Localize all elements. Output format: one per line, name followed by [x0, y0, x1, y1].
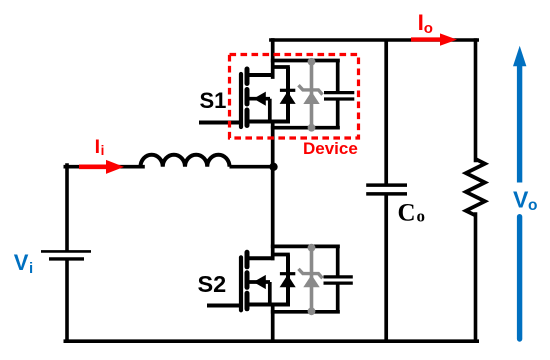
svg-text:S1: S1 — [200, 88, 227, 113]
mosfet S1 source lead — [247, 120, 290, 124]
zener diode S1 (gray) — [310, 61, 314, 128]
mosfet S2 gate lead — [209, 304, 240, 308]
battery Vi plate long — [41, 250, 91, 253]
capacitor S2 snubber — [336, 246, 340, 277]
svg-text:i: i — [101, 143, 105, 158]
wire left vertical upper — [65, 165, 69, 250]
mosfet S1 body arrow — [247, 97, 271, 101]
wire inductor to junction — [230, 165, 275, 169]
device dashed box — [230, 55, 359, 139]
diode S1 body diode — [286, 67, 290, 122]
wire right vertical upper — [474, 40, 478, 161]
node gray dot S2 zener top — [308, 244, 316, 252]
svg-text:o: o — [424, 20, 433, 37]
arrow Vo (blue) — [517, 65, 522, 183]
S2 device internal top rail — [273, 245, 338, 249]
mosfet S1 gate bar — [239, 74, 243, 127]
mosfet S2 body arrow — [247, 280, 271, 284]
S1 device internal top rail — [273, 59, 338, 63]
zener diode S2 (gray) — [310, 246, 314, 311]
mosfet S1 gate lead — [201, 121, 240, 125]
capacitor Co branch wire upper — [384, 40, 388, 185]
capacitor Co branch wire lower — [384, 194, 388, 341]
mosfet S1 channel segments — [245, 69, 250, 84]
node junction dot — [269, 163, 277, 171]
capacitor Co — [366, 183, 407, 187]
mosfet S1 drain lead — [247, 73, 275, 77]
svg-text:o: o — [417, 207, 426, 226]
wire right vertical lower — [474, 214, 478, 341]
wire top rail — [271, 38, 477, 42]
svg-text:o: o — [528, 197, 537, 214]
capacitor S1 snubber — [336, 61, 340, 93]
svg-text:S2: S2 — [198, 271, 227, 297]
wire bottom rail — [65, 339, 477, 343]
S1 device internal bottom rail — [273, 126, 338, 130]
wire middle vertical S1 source to junction — [271, 122, 275, 167]
mosfet S2 drain lead — [247, 256, 275, 260]
S2 diode top stub — [273, 255, 288, 260]
svg-text:i: i — [29, 260, 33, 277]
inductor L — [141, 155, 230, 167]
battery Vi plate short — [49, 257, 84, 260]
mosfet S2 channel segments — [245, 252, 250, 266]
svg-text:I: I — [95, 136, 100, 158]
S2 device internal bottom rail — [273, 310, 338, 314]
svg-text:C: C — [398, 200, 416, 227]
wire S2 source to bottom rail — [271, 305, 275, 342]
wire top-left horizontal — [65, 165, 143, 169]
node gray dot S1 zener bottom — [308, 124, 316, 132]
resistor load — [466, 159, 485, 215]
svg-text:Device: Device — [303, 139, 358, 158]
arrow Io — [411, 37, 441, 41]
arrow Ii — [79, 165, 107, 170]
svg-text:V: V — [14, 250, 29, 275]
wire left vertical lower — [65, 260, 69, 342]
S1 diode top stub — [273, 67, 288, 72]
node gray dot S2 zener bottom — [308, 307, 316, 315]
diode S2 body diode — [286, 255, 290, 305]
wire middle vertical S1 drain stub — [271, 40, 275, 77]
wire junction to S2 — [271, 167, 275, 260]
mosfet S2 source lead — [247, 303, 290, 307]
mosfet S2 gate bar — [239, 257, 243, 310]
svg-text:V: V — [513, 186, 529, 212]
node gray dot S1 zener top — [308, 58, 316, 66]
